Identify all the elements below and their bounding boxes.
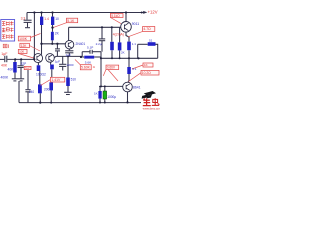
svg-text:7mV: 7mV (25, 67, 30, 70)
svg-text:100: 100 (19, 50, 24, 54)
svg-text:Ω: Ω (93, 65, 95, 69)
svg-text:5.1K: 5.1K (67, 19, 75, 23)
svg-text:1K: 1K (144, 63, 148, 67)
svg-text:2K: 2K (121, 50, 125, 54)
svg-text:2.2μ: 2.2μ (96, 42, 102, 46)
svg-text:240: 240 (29, 90, 35, 94)
svg-text:3.3: 3.3 (21, 16, 26, 20)
svg-text:4(2mA): 4(2mA) (113, 33, 124, 37)
svg-text:100Ω2: 100Ω2 (36, 72, 46, 76)
svg-text:400K: 400K (1, 75, 10, 79)
svg-text:100K: 100K (19, 37, 28, 41)
svg-text:1μF: 1μF (66, 53, 72, 57)
svg-text:1μF: 1μF (55, 59, 61, 63)
svg-text:8641: 8641 (133, 86, 141, 90)
svg-text:1000μ: 1000μ (107, 95, 116, 99)
svg-text:5.1P: 5.1P (87, 46, 93, 50)
svg-text:200: 200 (44, 87, 50, 91)
svg-text:9011: 9011 (132, 22, 139, 26)
svg-text:4.7Ω: 4.7Ω (143, 27, 151, 31)
svg-text:51: 51 (149, 39, 153, 43)
svg-text:5.60K: 5.60K (81, 66, 91, 70)
svg-text:5.1: 5.1 (132, 67, 137, 71)
svg-text:2200: 2200 (67, 63, 74, 67)
svg-text:1K: 1K (94, 91, 98, 95)
svg-text:2N401: 2N401 (76, 42, 86, 46)
svg-text:10: 10 (55, 17, 59, 21)
svg-text:22P: 22P (21, 62, 27, 66)
svg-text:40K: 40K (8, 68, 15, 72)
svg-text:1.4: 1.4 (44, 17, 49, 21)
svg-text:0.66V: 0.66V (107, 66, 116, 70)
svg-text:510: 510 (71, 77, 77, 81)
svg-text:1μF: 1μF (1, 52, 8, 56)
svg-text:1.41V: 1.41V (51, 78, 61, 82)
svg-text:12K: 12K (21, 44, 28, 48)
svg-text:www.dzsc.com: www.dzsc.com (143, 107, 160, 110)
svg-text:5.1kΩ: 5.1kΩ (111, 14, 120, 18)
svg-text:1.1: 1.1 (132, 42, 137, 46)
svg-text:+12V: +12V (148, 9, 158, 14)
svg-text:10.2Ω: 10.2Ω (142, 71, 151, 75)
svg-text:5.6K: 5.6K (85, 60, 92, 64)
